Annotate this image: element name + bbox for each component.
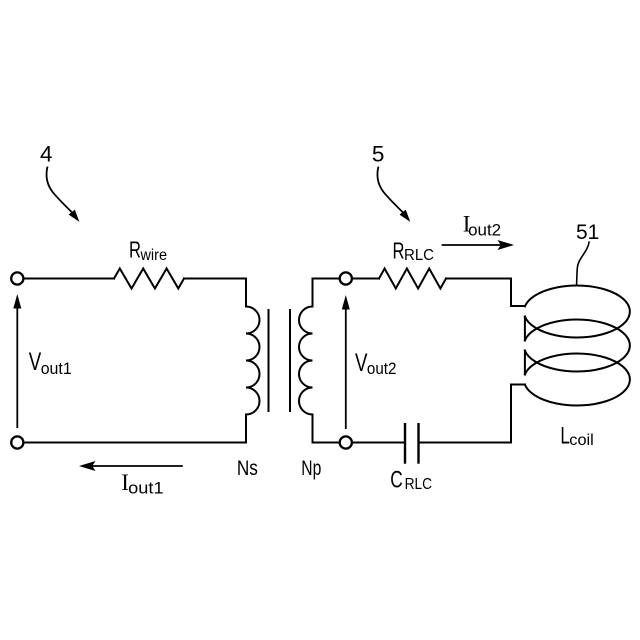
svg-text:out2: out2 — [468, 221, 501, 239]
leader line for label 51 — [577, 241, 590, 284]
arrow V_out2 — [342, 295, 350, 429]
coil turn 3 — [525, 354, 630, 406]
svg-text:R: R — [393, 238, 405, 264]
transformer secondary winding Ns — [246, 279, 260, 443]
transformer core line right — [289, 310, 291, 411]
coil turn 2 — [525, 319, 630, 371]
svg-text:V: V — [355, 349, 368, 377]
svg-text:out2: out2 — [367, 360, 397, 378]
arrow I_out1 — [79, 461, 183, 471]
svg-text:Ns: Ns — [237, 456, 258, 480]
capacitor C_RLC right plate — [417, 424, 419, 462]
transformer primary winding Np — [299, 279, 340, 443]
svg-text:C: C — [390, 466, 403, 493]
transformer core line left — [268, 310, 270, 411]
svg-text:R: R — [129, 237, 141, 263]
terminal top-left — [11, 272, 23, 284]
arrow V_out1 — [13, 294, 21, 428]
node bottom of Np — [340, 436, 352, 448]
svg-text:Np: Np — [301, 456, 321, 480]
coil link turn2-turn3 — [524, 351, 526, 375]
svg-text:RLC: RLC — [404, 247, 434, 264]
wire node top to resistor RRLC — [351, 278, 379, 280]
node top of Np — [340, 272, 352, 284]
svg-text:coil: coil — [569, 432, 594, 449]
resistor R_RLC — [379, 269, 446, 289]
svg-text:out1: out1 — [128, 480, 164, 498]
svg-text:V: V — [29, 348, 42, 376]
wire RRLC to coil entry — [446, 279, 525, 307]
svg-text:4: 4 — [40, 141, 53, 166]
coil link turn1-turn2 — [524, 317, 526, 341]
svg-text:out1: out1 — [41, 360, 72, 378]
wire coil exit to capacitor — [419, 385, 525, 443]
capacitor C_RLC left plate — [404, 424, 406, 462]
svg-text:5: 5 — [372, 142, 385, 167]
leader arrow for label 5 — [377, 167, 410, 222]
svg-text:wire: wire — [140, 247, 167, 264]
wire capacitor to node bottom — [340, 442, 404, 444]
wire Rwire to transformer secondary top — [184, 278, 246, 280]
svg-text:51: 51 — [576, 221, 599, 244]
wire top-left from terminal to Rwire — [24, 278, 114, 280]
coil turn 1 — [525, 286, 630, 338]
svg-text:RLC: RLC — [405, 476, 433, 493]
arrow I_out2 — [442, 240, 514, 250]
leader arrow for label 4 — [46, 167, 79, 222]
resistor R_wire — [114, 269, 184, 289]
wire bottom-left from Ns to terminal — [24, 442, 246, 444]
terminal bottom-left — [11, 436, 23, 448]
